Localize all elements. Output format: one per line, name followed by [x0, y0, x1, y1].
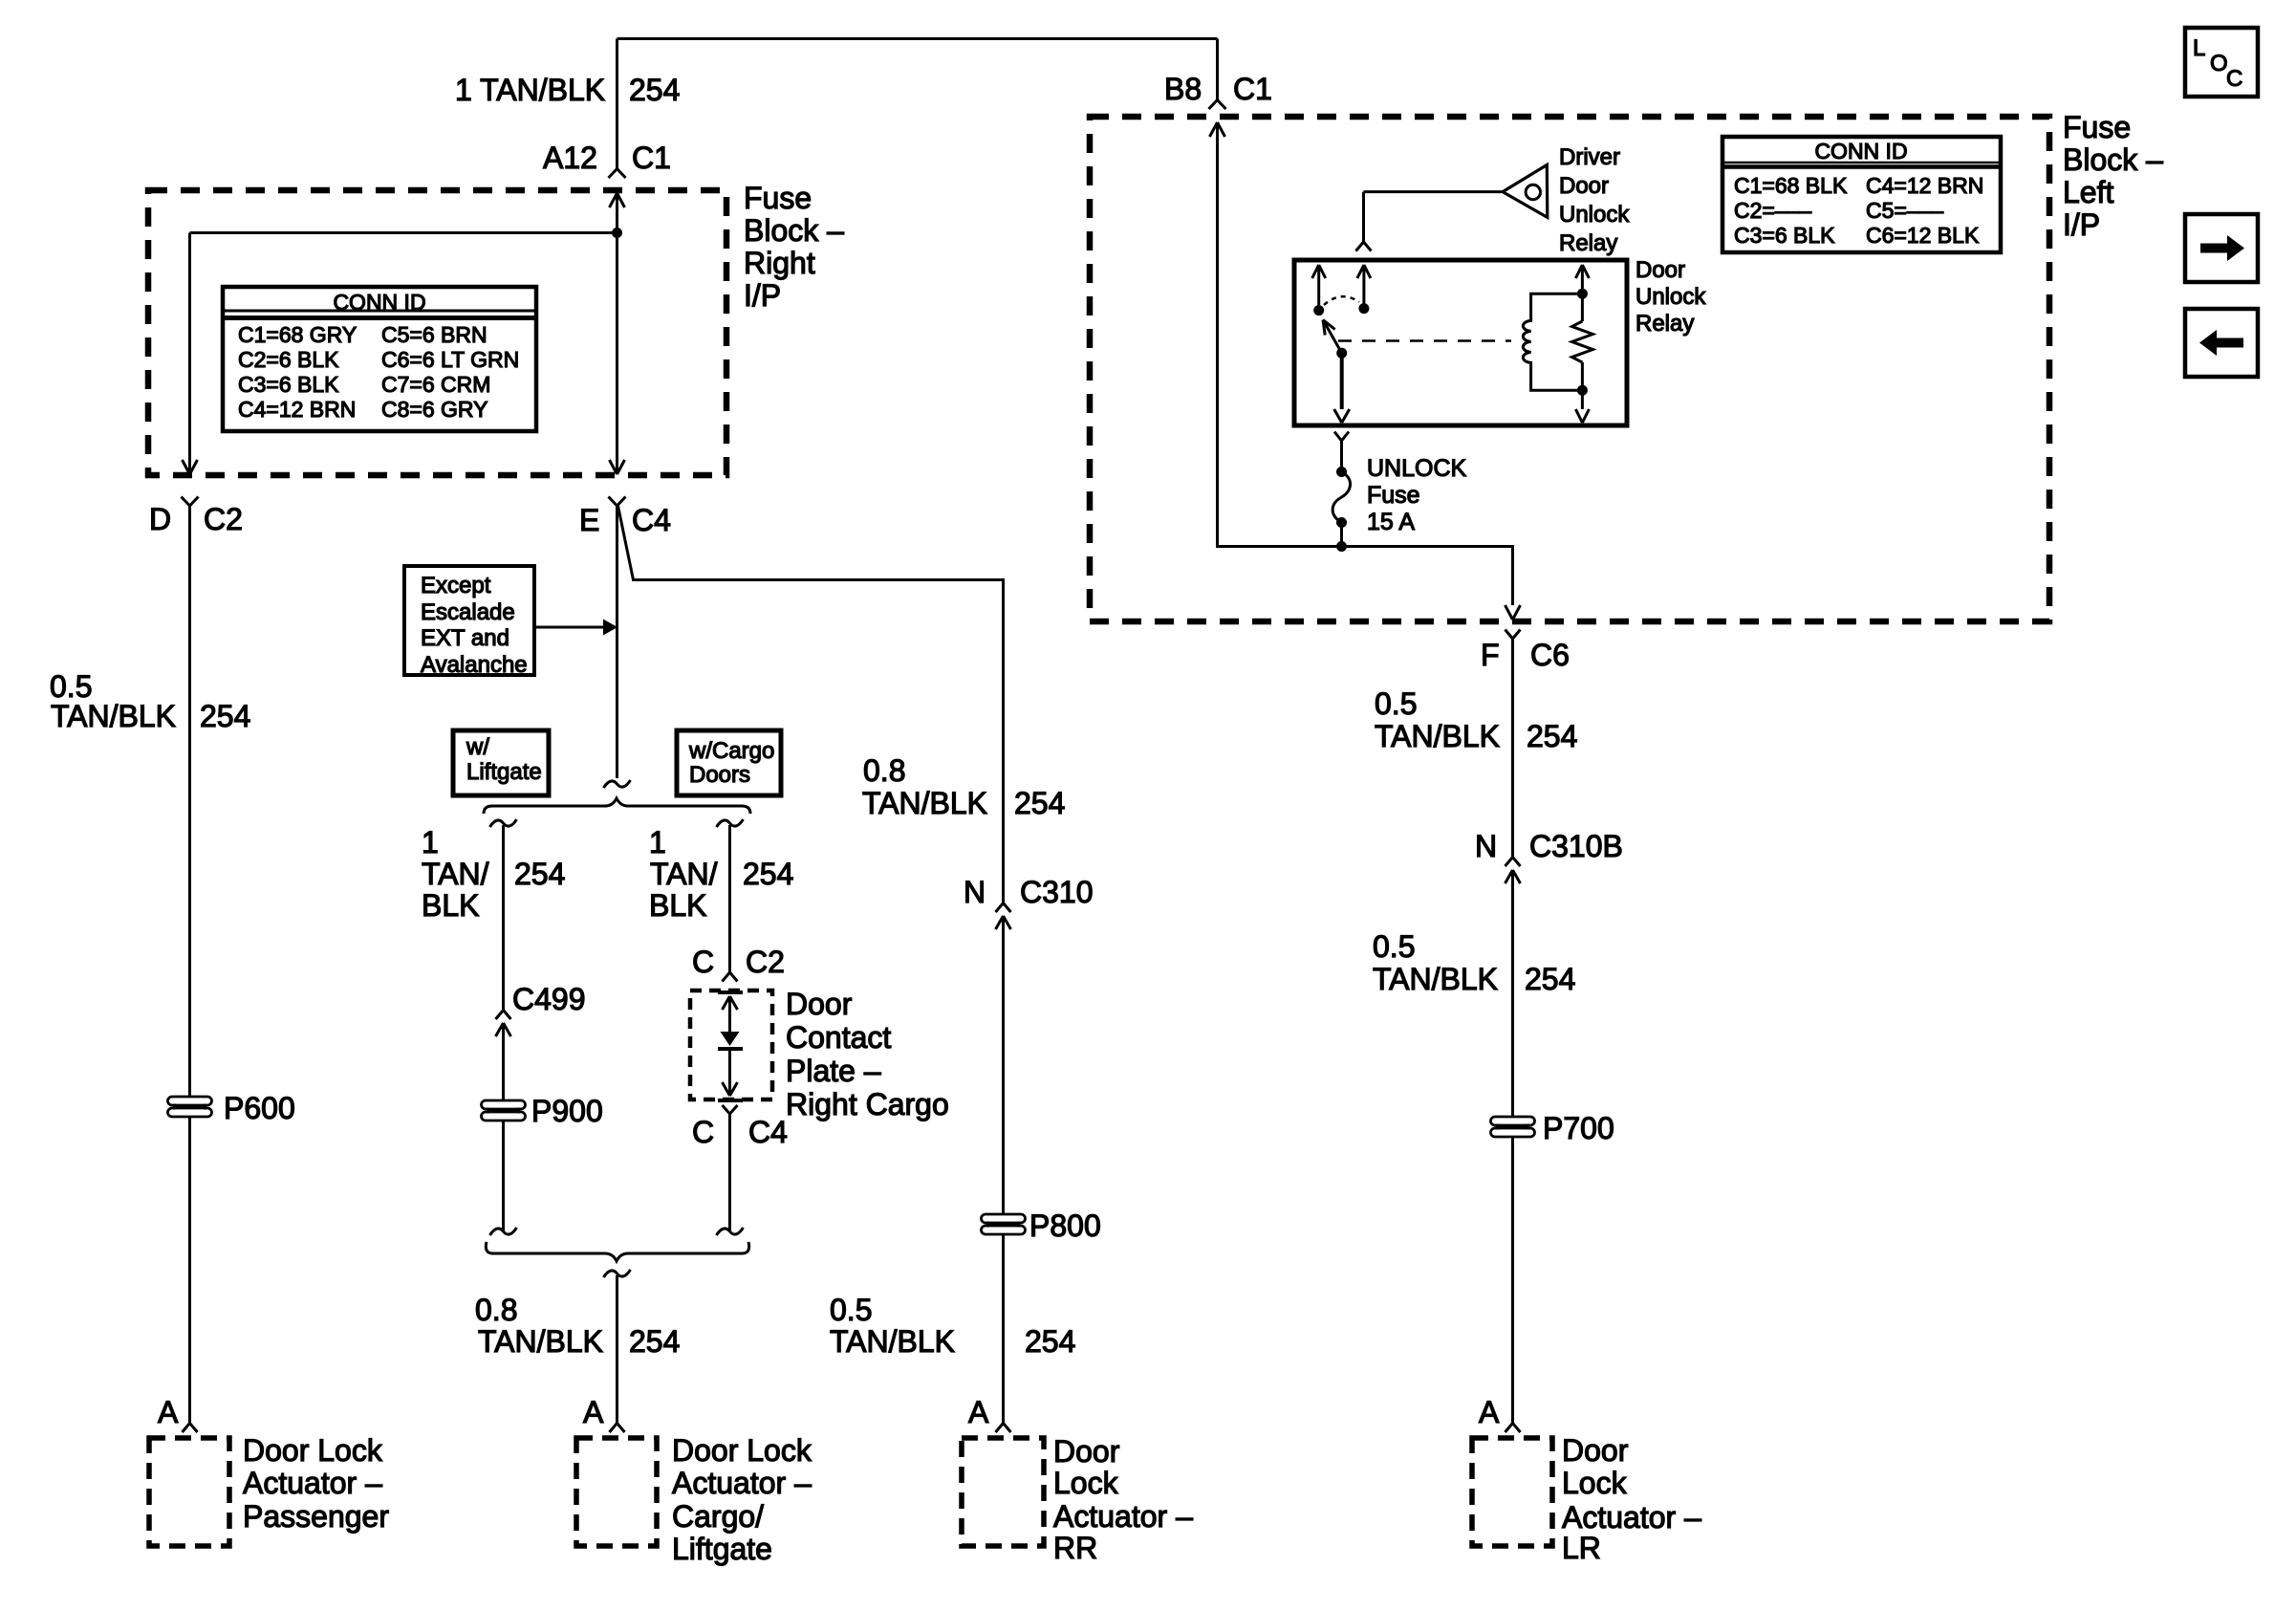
svg-text:C4: C4 [748, 1115, 788, 1149]
svg-text:Avalanche: Avalanche [421, 652, 528, 678]
svg-text:Right Cargo: Right Cargo [786, 1087, 949, 1121]
svg-text:Fuse: Fuse [1367, 482, 1420, 509]
svg-text:C1=68 GRY: C1=68 GRY [238, 322, 357, 347]
svg-text:254: 254 [1014, 786, 1065, 820]
svg-text:Relay: Relay [1635, 311, 1694, 337]
svg-text:CONN ID: CONN ID [333, 290, 425, 315]
svg-text:254: 254 [514, 857, 565, 891]
svg-text:Unlock: Unlock [1635, 284, 1706, 310]
svg-text:TAN/: TAN/ [422, 857, 489, 891]
svg-text:Block –: Block – [744, 213, 844, 248]
svg-text:Cargo/: Cargo/ [672, 1499, 764, 1534]
svg-text:C: C [692, 1115, 714, 1149]
svg-text:0.8: 0.8 [863, 753, 905, 788]
svg-text:254: 254 [629, 1324, 680, 1359]
svg-text:LR: LR [1562, 1531, 1601, 1565]
svg-text:C499: C499 [512, 982, 586, 1016]
svg-text:Door: Door [1562, 1433, 1629, 1468]
svg-text:Unlock: Unlock [1559, 202, 1630, 228]
svg-text:TAN/BLK: TAN/BLK [1375, 719, 1500, 753]
svg-text:Fuse: Fuse [2063, 110, 2131, 144]
svg-text:TAN/BLK: TAN/BLK [478, 1324, 603, 1359]
svg-text:0.5: 0.5 [1375, 686, 1417, 721]
svg-text:Actuator –: Actuator – [243, 1466, 382, 1500]
svg-text:TAN/: TAN/ [650, 857, 718, 891]
svg-text:Door: Door [1635, 257, 1685, 283]
svg-text:C2=–––: C2=––– [1734, 198, 1811, 223]
svg-text:C5=–––: C5=––– [1866, 198, 1943, 223]
svg-text:Contact: Contact [786, 1020, 891, 1055]
svg-text:Right: Right [744, 246, 815, 280]
svg-text:Passenger: Passenger [243, 1499, 389, 1534]
svg-text:Plate –: Plate – [786, 1054, 881, 1088]
svg-text:C: C [692, 945, 714, 979]
svg-text:C2: C2 [204, 502, 243, 536]
svg-text:C4=12 BRN: C4=12 BRN [1866, 173, 1983, 198]
svg-text:C4=12 BRN: C4=12 BRN [238, 397, 356, 422]
svg-text:Actuator –: Actuator – [1562, 1500, 1701, 1535]
svg-text:Door Lock: Door Lock [243, 1433, 383, 1468]
svg-text:CONN ID: CONN ID [1814, 139, 1907, 163]
svg-text:254: 254 [743, 857, 793, 891]
svg-text:Liftgate: Liftgate [672, 1532, 772, 1566]
svg-text:P700: P700 [1543, 1111, 1614, 1145]
svg-text:F: F [1481, 638, 1500, 672]
svg-text:Actuator –: Actuator – [1053, 1499, 1193, 1534]
svg-text:TAN/BLK: TAN/BLK [830, 1324, 955, 1359]
svg-text:I/P: I/P [2063, 207, 2100, 242]
svg-text:N: N [1475, 829, 1497, 863]
svg-text:B8: B8 [1164, 72, 1202, 106]
svg-text:254: 254 [1025, 1324, 1075, 1359]
svg-text:Left: Left [2063, 175, 2113, 209]
svg-text:C8=6 GRY: C8=6 GRY [381, 397, 487, 422]
svg-text:A: A [968, 1395, 989, 1429]
svg-text:1 TAN/BLK: 1 TAN/BLK [455, 73, 605, 107]
svg-text:C: C [2226, 66, 2242, 92]
svg-text:254: 254 [200, 699, 250, 733]
svg-text:C1: C1 [1233, 72, 1272, 106]
svg-text:C1: C1 [632, 141, 671, 175]
svg-text:254: 254 [1527, 719, 1577, 753]
svg-text:TAN/BLK: TAN/BLK [51, 699, 176, 733]
svg-text:Door Lock: Door Lock [672, 1433, 812, 1468]
svg-text:P900: P900 [531, 1094, 603, 1128]
svg-text:RR: RR [1053, 1531, 1097, 1565]
svg-text:P600: P600 [224, 1091, 295, 1125]
svg-text:C310: C310 [1020, 875, 1094, 909]
svg-text:0.8: 0.8 [475, 1293, 517, 1327]
svg-text:254: 254 [629, 73, 680, 107]
svg-text:C6: C6 [1530, 638, 1570, 672]
svg-text:O: O [2210, 51, 2228, 76]
svg-text:C310B: C310B [1529, 829, 1623, 863]
svg-text:TAN/BLK: TAN/BLK [1373, 962, 1498, 996]
svg-text:Fuse: Fuse [744, 181, 812, 215]
svg-text:w/Cargo: w/Cargo [688, 738, 774, 764]
svg-text:EXT and: EXT and [421, 625, 509, 651]
svg-text:D: D [149, 502, 171, 536]
svg-text:N: N [964, 875, 986, 909]
svg-text:Door: Door [1053, 1434, 1120, 1469]
svg-text:Escalade: Escalade [421, 599, 515, 625]
svg-text:TAN/BLK: TAN/BLK [862, 786, 987, 820]
svg-text:C1=68 BLK: C1=68 BLK [1734, 173, 1848, 198]
svg-text:C7=6 CRM: C7=6 CRM [381, 372, 490, 397]
svg-text:C4: C4 [632, 503, 671, 537]
svg-text:A12: A12 [543, 141, 597, 175]
svg-text:BLK: BLK [649, 888, 706, 923]
svg-text:C6=6 LT GRN: C6=6 LT GRN [381, 347, 519, 372]
svg-text:0.5: 0.5 [1373, 929, 1415, 964]
svg-text:Liftgate: Liftgate [466, 759, 542, 785]
svg-text:E: E [579, 503, 599, 537]
svg-text:Except: Except [421, 573, 491, 599]
svg-text:UNLOCK: UNLOCK [1367, 455, 1467, 482]
svg-text:C2: C2 [746, 945, 785, 979]
svg-text:0.5: 0.5 [830, 1293, 872, 1327]
svg-text:C3=6 BLK: C3=6 BLK [1734, 223, 1835, 248]
svg-text:BLK: BLK [422, 888, 479, 923]
svg-text:Door: Door [1559, 173, 1609, 199]
svg-text:w/: w/ [466, 734, 489, 760]
svg-text:Relay: Relay [1559, 230, 1617, 256]
svg-text:A: A [158, 1395, 179, 1429]
svg-text:I/P: I/P [744, 278, 781, 313]
svg-text:A: A [583, 1395, 604, 1429]
svg-text:1: 1 [649, 825, 666, 860]
svg-text:1: 1 [422, 825, 439, 860]
svg-text:C2=6 BLK: C2=6 BLK [238, 347, 339, 372]
svg-text:C5=6 BRN: C5=6 BRN [381, 322, 487, 347]
svg-text:Block –: Block – [2063, 142, 2163, 177]
svg-text:A: A [1479, 1395, 1500, 1429]
svg-text:Actuator –: Actuator – [672, 1466, 812, 1500]
svg-text:254: 254 [1525, 962, 1575, 996]
svg-text:Lock: Lock [1562, 1466, 1628, 1500]
svg-text:C3=6 BLK: C3=6 BLK [238, 372, 339, 397]
svg-text:C6=12 BLK: C6=12 BLK [1866, 223, 1980, 248]
svg-text:Door: Door [786, 987, 853, 1021]
svg-text:P800: P800 [1029, 1208, 1101, 1243]
svg-text:L: L [2193, 35, 2205, 61]
svg-text:Driver: Driver [1559, 144, 1620, 170]
svg-text:15 A: 15 A [1367, 509, 1415, 535]
svg-text:Doors: Doors [689, 762, 750, 788]
svg-text:Lock: Lock [1053, 1466, 1119, 1500]
